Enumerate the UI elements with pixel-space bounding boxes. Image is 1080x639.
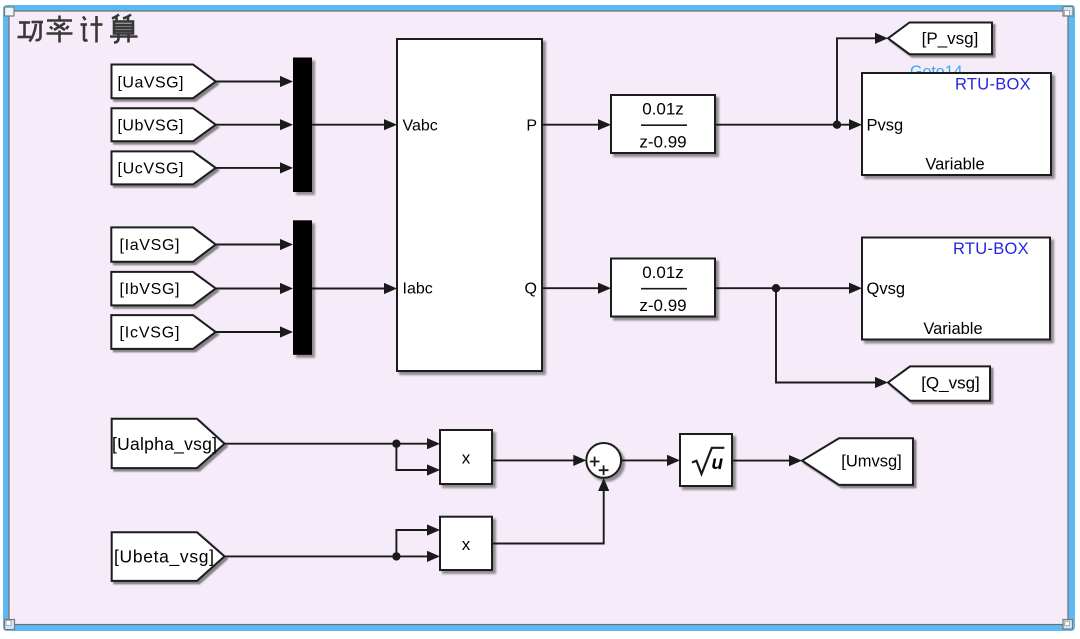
From tag [Ubeta_vsg]	[112, 532, 225, 581]
junction dot Ualpha branch	[392, 440, 400, 448]
svg-text:Variable: Variable	[925, 156, 984, 174]
wire product1 to sum	[492, 459, 575, 461]
junction dot TF2 branch	[772, 284, 780, 292]
arrow into mux2 b	[280, 283, 293, 294]
junction dot TF1 branch	[833, 121, 841, 129]
sqrt block	[680, 434, 732, 486]
transfer fn block TF1 0.01z/(z-0.99)	[611, 95, 715, 153]
wire UcVSG to mux1	[216, 167, 281, 169]
goto tag [Umvsg]	[802, 438, 913, 485]
wire P to TF1	[542, 124, 599, 126]
svg-text:[UbVSG]: [UbVSG]	[118, 118, 184, 135]
RTU-BOX block Qvsg	[862, 238, 1050, 340]
wire product2 to sum bottom	[492, 491, 604, 544]
wire TF1 to Pvsg	[715, 124, 850, 126]
From tag [IbVSG]	[111, 272, 215, 306]
arrow into mux2 c	[280, 326, 293, 337]
product block Product1	[440, 430, 492, 484]
From tag [IaVSG]	[111, 227, 215, 261]
wire branch to P_vsg tag	[837, 38, 876, 124]
goto tag [Q_vsg]	[888, 366, 990, 400]
arrow into Qvsg	[849, 283, 862, 294]
arrow into Iabc	[384, 283, 397, 294]
svg-text:[UaVSG]: [UaVSG]	[118, 75, 184, 92]
svg-text:[Umvsg]: [Umvsg]	[841, 453, 902, 471]
svg-text:z-0.99: z-0.99	[639, 133, 686, 152]
wire Ubeta to product2	[225, 555, 429, 557]
svg-text:Pvsg: Pvsg	[867, 117, 904, 135]
arrow into Pvsg	[849, 119, 862, 130]
mux Mux1	[293, 58, 312, 193]
arrow into mux1 c	[280, 162, 293, 173]
svg-text:RTU-BOX: RTU-BOX	[955, 76, 1031, 94]
wire branch Ubeta upper	[396, 530, 428, 556]
sum block Add	[586, 443, 621, 478]
wire Q to TF2	[542, 287, 599, 289]
wire Ualpha to product1	[225, 443, 429, 445]
wire IbVSG to mux2	[216, 288, 281, 290]
svg-text:Qvsg: Qvsg	[867, 280, 906, 298]
wire TF2 to Qvsg	[715, 287, 850, 289]
RTU-BOX block Pvsg	[862, 73, 1051, 175]
svg-text:[P_vsg]: [P_vsg]	[922, 29, 979, 48]
From tag [Ualpha_vsg]	[112, 419, 225, 468]
wire UaVSG to mux1	[216, 81, 281, 83]
svg-text:Vabc: Vabc	[403, 118, 438, 135]
wire sum to sqrt	[621, 459, 668, 461]
arrow into sqrt	[667, 455, 680, 466]
arrow into P_vsg tag	[875, 33, 888, 44]
wire IaVSG to mux2	[216, 244, 281, 246]
arrow into Umvsg tag	[789, 455, 802, 466]
wire IcVSG to mux2	[216, 331, 281, 333]
corner handle top-right	[1063, 7, 1073, 17]
arrow into product2 upper	[427, 524, 440, 535]
svg-text:x: x	[462, 449, 471, 468]
arrow into product2 lower	[427, 551, 440, 562]
transfer fn block TF2 0.01z/(z-0.99)	[611, 259, 715, 317]
product block Product2	[440, 517, 492, 570]
corner handle bottom-right	[1063, 620, 1073, 630]
From tag [IcVSG]	[111, 315, 215, 349]
wire sqrt to Umvsg	[732, 460, 790, 462]
svg-text:P: P	[526, 118, 537, 135]
goto tag [P_vsg]	[888, 23, 992, 55]
功	[19, 21, 30, 24]
svg-text:Iabc: Iabc	[403, 281, 433, 298]
svg-text:[Ubeta_vsg]: [Ubeta_vsg]	[114, 547, 214, 568]
svg-text:[Ualpha_vsg]: [Ualpha_vsg]	[112, 434, 217, 455]
svg-text:[IcVSG]: [IcVSG]	[120, 325, 180, 342]
svg-text:z-0.99: z-0.99	[639, 296, 686, 315]
svg-text:0.01z: 0.01z	[642, 100, 684, 119]
arrow into product1 upper	[427, 438, 440, 449]
算	[112, 15, 119, 19]
wire branch Ualpha lower	[396, 444, 428, 470]
wire mux1 to Vabc	[312, 124, 385, 126]
arrow into Vabc	[384, 119, 397, 130]
计	[83, 17, 86, 21]
corner handle top-left	[5, 7, 15, 16]
svg-text:[IbVSG]: [IbVSG]	[120, 281, 180, 298]
wire mux2 to Iabc	[312, 288, 385, 290]
corner handle bottom-left	[5, 620, 15, 630]
arrowheads	[280, 33, 888, 562]
arrow into Q_vsg tag	[875, 377, 888, 388]
svg-text:[UcVSG]: [UcVSG]	[118, 161, 184, 178]
svg-text:x: x	[462, 535, 471, 554]
svg-text:[IaVSG]: [IaVSG]	[120, 237, 180, 254]
From tag [UcVSG]	[112, 151, 216, 184]
arrow into sum left	[573, 455, 586, 466]
title 功率计算 (drawn strokes)	[18, 15, 138, 43]
arrow into sum bottom	[598, 478, 609, 491]
subsystem block power calc	[397, 39, 542, 371]
率	[58, 16, 61, 20]
svg-text:Q: Q	[525, 281, 537, 298]
svg-text:Variable: Variable	[923, 320, 982, 338]
arrow into TF2	[598, 283, 611, 294]
mux Mux2	[293, 220, 312, 354]
junction dot Ubeta branch	[392, 552, 400, 560]
arrow into mux1 a	[280, 76, 293, 87]
arrow into mux1 b	[280, 119, 293, 130]
arrow into TF1	[598, 119, 611, 130]
From tag [UaVSG]	[112, 65, 216, 99]
svg-text:RTU-BOX: RTU-BOX	[953, 240, 1029, 258]
arrow into product1 lower	[427, 464, 440, 475]
From tag [UbVSG]	[112, 108, 216, 141]
svg-text:[Q_vsg]: [Q_vsg]	[921, 374, 980, 393]
arrow into mux2 a	[280, 239, 293, 250]
svg-text:0.01z: 0.01z	[642, 263, 684, 282]
svg-text:u: u	[712, 453, 724, 474]
wire branch to Q_vsg tag	[776, 288, 876, 382]
wire UbVSG to mux1	[216, 124, 281, 126]
